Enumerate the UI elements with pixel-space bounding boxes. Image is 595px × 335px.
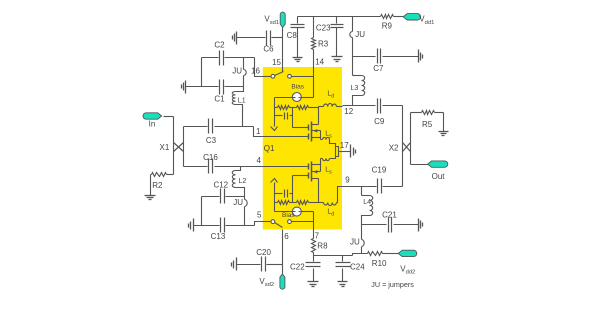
svg-text:C23: C23 — [316, 23, 331, 32]
wire (drain to Ld bottom) — [319, 179, 324, 203]
bias source (top) — [291, 84, 304, 102]
wire (to pin 4) — [215, 166, 263, 168]
svg-text:L4: L4 — [363, 199, 371, 206]
ground arrow (top bias) — [271, 127, 278, 131]
wire (pin 6) — [282, 230, 284, 274]
switch (jumper 5/6) — [263, 220, 314, 228]
wire (X2 right) — [410, 113, 412, 165]
transistor Q1 label — [264, 144, 275, 153]
capacitor C21 — [382, 210, 397, 232]
inductor Ls (top) — [323, 131, 339, 159]
wire — [184, 126, 208, 128]
wire — [362, 224, 387, 226]
inductor Ls (bottom) — [321, 159, 333, 176]
resistor R8 — [312, 230, 329, 256]
wire — [272, 37, 283, 39]
ground (C1 left) — [182, 81, 186, 94]
wire — [164, 117, 174, 175]
svg-text:L1: L1 — [238, 98, 246, 105]
svg-text:R8: R8 — [317, 241, 328, 250]
svg-text:4: 4 — [257, 156, 262, 165]
svg-text:1: 1 — [256, 127, 261, 136]
resistor R5 — [422, 111, 444, 132]
wire — [383, 186, 403, 188]
svg-text:12: 12 — [344, 107, 353, 116]
svg-text:C16: C16 — [203, 153, 218, 162]
svg-text:C7: C7 — [373, 64, 384, 73]
wire — [274, 108, 276, 127]
wire — [383, 56, 419, 58]
wire — [202, 196, 245, 198]
ground (C6 left) — [233, 32, 237, 45]
svg-text:14: 14 — [315, 58, 324, 67]
svg-text:7: 7 — [315, 232, 320, 241]
inductor L4 — [362, 187, 373, 225]
wire (source to Ls) — [321, 138, 323, 140]
jumper JU (bottom-left) — [233, 197, 247, 226]
wire (pin 1 gate lead) — [263, 136, 309, 138]
ground (R2) — [145, 196, 156, 200]
wire — [184, 166, 208, 168]
pin 7 label — [315, 232, 320, 241]
wire — [353, 56, 376, 58]
svg-text:X2: X2 — [389, 143, 399, 152]
transformer X1 — [160, 143, 184, 153]
bias capacitor (top) — [275, 108, 293, 120]
capacitor C19 — [372, 166, 387, 194]
svg-text:Vsd2: Vsd2 — [259, 277, 274, 288]
bias source (bottom) — [282, 207, 301, 219]
ground (R5) — [439, 132, 449, 136]
svg-text:17: 17 — [340, 141, 349, 150]
svg-text:6: 6 — [284, 232, 289, 241]
wire (to pin 1) — [215, 127, 263, 137]
wire — [411, 112, 422, 114]
ground (C20 left) — [232, 258, 237, 271]
bias resistor (bottom left) — [275, 201, 290, 205]
transistor (top FET of Q1) — [309, 122, 321, 142]
pin 5 label — [257, 211, 262, 220]
svg-text:Vdd2: Vdd2 — [400, 265, 415, 276]
svg-text:C1: C1 — [214, 95, 225, 104]
svg-text:JU: JU — [350, 238, 360, 247]
port In — [143, 113, 162, 129]
wire (pin 4 gate lead) — [263, 166, 309, 168]
wire — [411, 164, 429, 166]
pin 6 label — [284, 232, 289, 241]
wire (to pin 5) — [255, 222, 263, 226]
svg-text:C6: C6 — [263, 44, 274, 53]
capacitor C2 — [214, 41, 225, 66]
pin 12 label — [344, 107, 353, 116]
pin 9 label — [345, 176, 350, 185]
svg-text:Bias: Bias — [291, 84, 304, 91]
svg-text:L2: L2 — [239, 178, 247, 185]
wire — [290, 107, 297, 109]
svg-text:X1: X1 — [160, 143, 170, 152]
capacitor C8 — [287, 17, 305, 58]
ground (C21 right) — [419, 219, 423, 232]
svg-text:R9: R9 — [382, 21, 393, 30]
capacitor C13 — [211, 218, 226, 241]
inductor Ld (bottom) — [324, 187, 343, 218]
ground (C8) — [293, 58, 303, 62]
svg-text:C24: C24 — [350, 263, 365, 272]
port Vsd2 — [259, 274, 285, 289]
pin 15 label — [272, 58, 281, 67]
wire — [394, 224, 419, 226]
capacitor C22 — [290, 256, 320, 282]
svg-text:C19: C19 — [372, 166, 387, 175]
wire — [275, 203, 293, 212]
svg-text:9: 9 — [345, 176, 350, 185]
switch (jumper 15/16) — [263, 72, 314, 79]
wire (pin 7 net) — [302, 212, 314, 230]
svg-text:5: 5 — [257, 211, 262, 220]
wire (drain to Ld) — [319, 107, 324, 125]
wire (pin 9) — [343, 186, 377, 188]
pin 1 label — [256, 127, 261, 136]
wire — [201, 58, 203, 87]
wire — [314, 254, 368, 256]
port Out — [428, 161, 448, 181]
inductor L2 — [232, 167, 246, 197]
transistor (bottom FET of Q1) — [309, 162, 321, 182]
svg-text:Vdd1: Vdd1 — [419, 15, 434, 26]
wire — [383, 105, 403, 107]
wire — [194, 225, 255, 227]
wire (pin 12) — [343, 105, 376, 107]
capacitor C20 — [256, 248, 271, 272]
svg-text:R2: R2 — [152, 181, 163, 190]
svg-text:R5: R5 — [422, 120, 433, 129]
jumper JU (top-right) — [350, 17, 365, 57]
capacitor C3 — [206, 119, 217, 146]
pin 17 label — [340, 141, 349, 150]
port Vsd1 — [264, 12, 285, 27]
resistor R10 — [368, 252, 399, 269]
svg-text:C8: C8 — [287, 31, 298, 40]
transformer X2 — [389, 143, 411, 153]
svg-text:C20: C20 — [256, 248, 271, 257]
svg-text:C2: C2 — [214, 41, 225, 50]
wire — [274, 183, 276, 203]
wire — [237, 37, 266, 39]
ground (pin 17) — [351, 145, 356, 158]
ground (C22) — [308, 282, 319, 287]
bias capacitor (bottom) — [275, 190, 293, 203]
svg-text:16: 16 — [251, 67, 260, 76]
svg-text:C13: C13 — [211, 232, 226, 241]
wire — [237, 264, 261, 266]
svg-text:L3: L3 — [351, 85, 359, 92]
wire — [186, 86, 244, 88]
bias resistor (top right) — [297, 106, 319, 110]
jumper JU (bottom-right) — [350, 225, 364, 254]
ground (C13 left) — [189, 219, 194, 232]
wire (divider to gate2, bottom) — [293, 176, 309, 194]
svg-text:JU: JU — [355, 30, 365, 39]
capacitor C7 — [373, 49, 384, 74]
wire (pin 17 stub) — [339, 151, 351, 153]
svg-text:15: 15 — [272, 58, 281, 67]
wire (divider to gate2, top) — [293, 116, 309, 128]
capacitor C24 — [336, 256, 366, 282]
svg-text:JU: JU — [232, 67, 242, 76]
capacitor C6 — [263, 31, 274, 54]
capacitor C1 — [214, 80, 225, 104]
pin 16 label — [251, 67, 260, 76]
svg-text:C9: C9 — [374, 117, 385, 126]
wire — [183, 127, 185, 167]
port Vdd1 — [403, 14, 434, 26]
svg-text:R3: R3 — [318, 39, 329, 48]
wire (node to pin 16) — [255, 58, 263, 77]
svg-text:Q1: Q1 — [264, 144, 275, 153]
resistor R3 — [312, 17, 329, 68]
wire — [290, 202, 297, 204]
wire (pin 14 net) — [302, 68, 314, 98]
inductor L1 — [232, 87, 245, 127]
wire (X2 left) — [402, 106, 404, 187]
svg-text:Out: Out — [432, 172, 446, 181]
svg-text:JU: JU — [233, 198, 243, 207]
pin 4 label — [257, 156, 262, 165]
resistor R9 — [381, 15, 404, 31]
ground (C24) — [338, 282, 348, 287]
svg-text:C3: C3 — [206, 136, 217, 145]
svg-text:C22: C22 — [290, 263, 305, 272]
resistor R2 — [151, 173, 174, 196]
ground arrow (bottom bias) — [271, 179, 278, 183]
capacitor C23 — [316, 17, 344, 57]
capacitor C16 — [203, 153, 218, 173]
wire — [282, 28, 284, 68]
wire — [275, 98, 293, 108]
svg-text:Vsd1: Vsd1 — [264, 15, 279, 26]
legend text — [371, 280, 414, 289]
capacitor C12 — [213, 181, 228, 204]
ground (C7 right) — [419, 50, 423, 63]
pin 14 label — [315, 58, 324, 67]
wire (pin15 stub) — [282, 68, 284, 72]
svg-text:JU = jumpers: JU = jumpers — [371, 280, 414, 289]
port Vdd2 — [398, 250, 417, 276]
svg-text:Bias: Bias — [282, 212, 295, 219]
bias resistor (top left) — [275, 106, 290, 110]
inductor Ld (top) — [324, 90, 343, 106]
svg-text:In: In — [149, 119, 156, 128]
wire (bulk-source tie) — [320, 165, 322, 172]
wire (Vdd1 rail) — [298, 16, 381, 18]
wire — [202, 57, 255, 59]
capacitor C9 — [374, 99, 385, 127]
jumper JU (top-left) — [232, 58, 246, 87]
inductor L3 — [351, 57, 365, 106]
wire — [201, 197, 203, 226]
highlighted region (internal model of Q1) — [263, 67, 342, 230]
svg-text:C21: C21 — [382, 210, 397, 219]
wire — [267, 264, 283, 266]
ground (C23) — [332, 57, 343, 62]
bias resistor (bottom right) — [297, 201, 319, 205]
svg-text:C12: C12 — [213, 181, 228, 190]
svg-text:R10: R10 — [372, 259, 387, 268]
